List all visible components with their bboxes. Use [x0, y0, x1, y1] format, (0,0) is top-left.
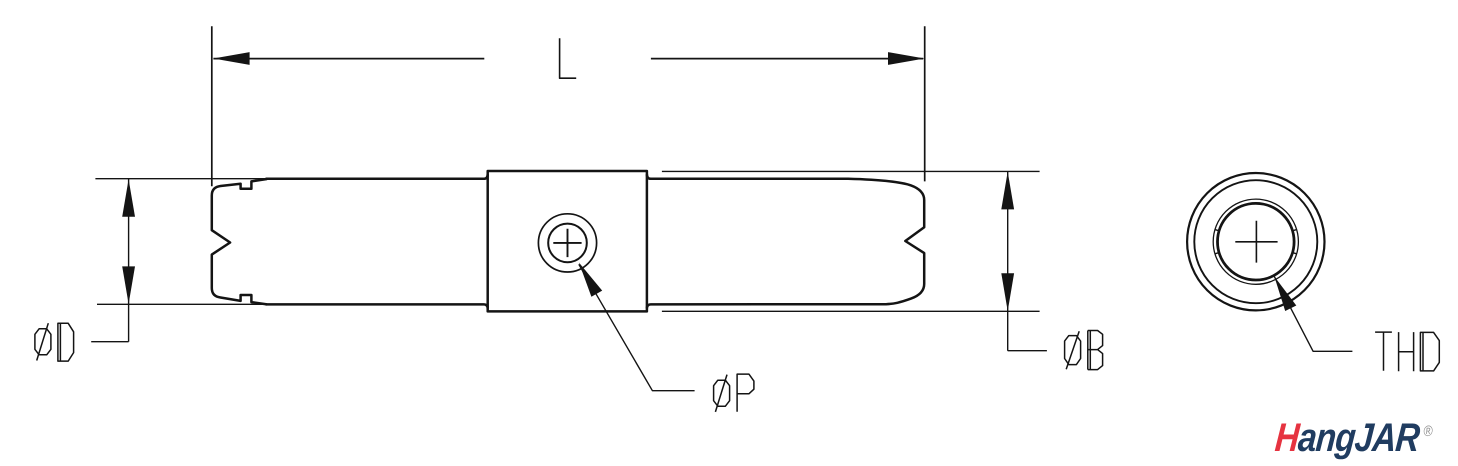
part outline: right cylinder and threaded end with break zigzag — [647, 174, 924, 308]
label ØD diameter slash — [37, 323, 49, 360]
part outline: cylinder top edge, left of centre block (with fillet) — [266, 174, 488, 179]
leader THD arrowhead — [1274, 276, 1296, 311]
HangJAR logo — [1273, 418, 1410, 466]
label ØB letter B — [1088, 331, 1103, 370]
label THD letter H — [1399, 332, 1414, 371]
dimension L extension line right — [924, 26, 926, 181]
dimension ØB arrowhead up — [1001, 172, 1014, 210]
end view bore circle — [1218, 203, 1295, 280]
cross hole inner circle — [548, 224, 587, 263]
leader ØP arrowhead — [579, 263, 602, 297]
dimension L line left segment — [213, 58, 484, 60]
dimension L line right segment — [651, 58, 923, 60]
dimension ØD leader to text — [91, 341, 128, 343]
dimension ØB extension line bottom — [662, 310, 1040, 312]
part outline: cylinder bottom edge, left of centre block (with fillet) — [266, 304, 488, 308]
label THD letter T — [1375, 332, 1392, 371]
label THD letter D — [1420, 332, 1439, 371]
label ØB diameter symbol — [1065, 336, 1081, 365]
dimension ØB extension line top — [662, 170, 1040, 172]
leader line ØP — [579, 264, 695, 390]
cross hole centre mark — [553, 229, 581, 257]
dimension ØD arrowhead down — [122, 266, 135, 304]
end view second circle — [1194, 180, 1317, 303]
end view centre mark — [1235, 221, 1277, 263]
end view outer circle — [1187, 173, 1324, 310]
dimension ØD arrowhead up — [122, 179, 135, 217]
dimension ØB line vertical — [1007, 172, 1009, 351]
dimension ØD line vertical — [128, 179, 130, 342]
end view thread minor circle — [1213, 199, 1298, 284]
label ØP diameter slash — [715, 375, 727, 412]
leader line THD — [1274, 276, 1352, 351]
label ØD diameter symbol — [35, 329, 51, 355]
label ØB diameter slash — [1066, 331, 1079, 369]
label ØP letter P — [737, 374, 754, 412]
dimension ØD extension line bottom — [97, 303, 268, 305]
label L — [560, 38, 577, 78]
label ØD letter D — [58, 323, 74, 361]
label ØP diameter symbol — [714, 380, 730, 406]
cross hole outer circle (counterbore) — [538, 214, 596, 272]
part outline: left threaded end cap with notches and break zigzag — [212, 179, 267, 304]
end view thread tick marks — [1215, 230, 1297, 254]
dimension ØB arrowhead down — [1001, 273, 1014, 311]
part outline: centre block — [488, 171, 647, 311]
dimension L extension line left — [211, 26, 213, 186]
dimension L arrowhead right — [888, 52, 925, 65]
dimension ØB leader to text — [1008, 350, 1047, 352]
dimension L arrowhead left — [213, 52, 249, 65]
dimension ØD extension line top — [95, 178, 268, 180]
